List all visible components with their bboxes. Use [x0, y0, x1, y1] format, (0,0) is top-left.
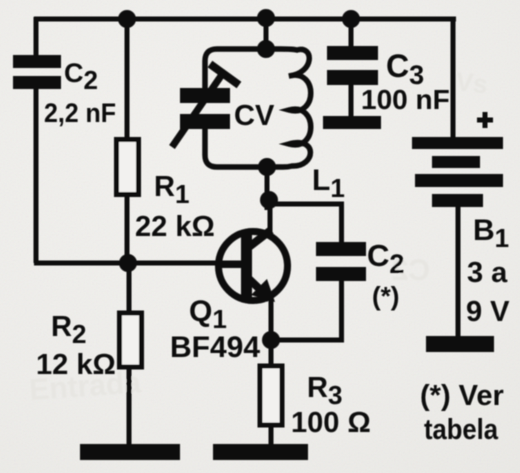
svg-text:(*) Ver: (*) Ver — [420, 380, 504, 412]
svg-text:100 Ω: 100 Ω — [291, 407, 371, 439]
svg-text:3 a: 3 a — [467, 257, 508, 289]
transistor base bar — [241, 235, 252, 299]
ground bar under C3 — [323, 116, 381, 129]
wire base junction to R2 — [127, 263, 132, 311]
svg-text:9 V: 9 V — [466, 296, 510, 328]
wire emitter to junction — [269, 298, 274, 342]
resistor R2 — [120, 313, 142, 367]
battery B1 plates — [412, 137, 503, 207]
svg-text:2,2 nF: 2,2 nF — [44, 98, 116, 128]
variable capacitor CV plates — [180, 88, 230, 129]
transistor emitter stroke — [249, 279, 270, 299]
wire C3 to ground bar — [349, 84, 354, 118]
transistor Q1 circle — [219, 232, 288, 301]
wire battery bottom to ground bar — [456, 205, 461, 340]
wire rail corner down to battery plus — [451, 17, 456, 139]
tank loop wire with coil L1 — [205, 49, 311, 167]
ground bar under battery — [426, 336, 494, 352]
node junction base — [119, 254, 137, 272]
wire collector node to C2 star branch — [268, 204, 342, 243]
svg-text:100 nF: 100 nF — [361, 84, 450, 115]
node junction rail-tank — [257, 9, 275, 27]
wire R3 to ground — [269, 427, 274, 448]
node junction rail-R1 — [118, 10, 136, 28]
wire collector node to transistor — [268, 199, 273, 237]
ground bar under R3 — [213, 444, 308, 460]
svg-text:Vs: Vs — [454, 66, 489, 99]
node junction emitter — [262, 331, 280, 349]
transistor base lead — [218, 262, 244, 268]
wire C2 star bottom to emitter junction — [270, 281, 342, 340]
capacitor C3 plates — [327, 46, 378, 85]
wire left branch from rail to C2 — [34, 17, 39, 56]
svg-text:12 kΩ: 12 kΩ — [36, 349, 116, 381]
transistor emitter arrowhead — [251, 279, 275, 302]
node junction collector tap — [260, 191, 278, 209]
wire base junction to transistor base — [127, 261, 244, 266]
svg-text:CV: CV — [234, 100, 275, 132]
battery B1 plus sign — [477, 112, 493, 128]
wire top rail — [34, 17, 456, 22]
wire lower-left horizontal to base junction — [34, 261, 130, 266]
svg-text:BF494: BF494 — [170, 331, 260, 364]
wire C2 bottom to lower-left corner — [34, 88, 39, 263]
node junction tank top — [257, 40, 275, 58]
CV arrow tee head — [210, 64, 239, 85]
svg-text:22 kΩ: 22 kΩ — [135, 211, 215, 243]
wire R1 to base junction — [125, 196, 130, 265]
resistor R1 — [117, 140, 139, 195]
capacitor C2 star plates — [316, 242, 366, 281]
capacitor C2 top-left plates — [13, 55, 61, 89]
node junction rail-C3 — [342, 10, 360, 28]
wire rail to tank top — [264, 17, 269, 50]
wire R2 to ground — [127, 369, 132, 448]
wire tank bottom to collector node — [265, 167, 270, 210]
svg-text:tabela: tabela — [424, 414, 499, 446]
wire emitter junction to R3 — [269, 340, 274, 365]
ground bar under R2 — [80, 444, 180, 460]
transistor collector stroke — [249, 230, 271, 247]
node junction tank bottom — [258, 158, 276, 176]
wire rail to R1 — [125, 17, 130, 138]
resistor R3 — [260, 366, 282, 425]
svg-text:(*): (*) — [372, 281, 399, 311]
CV arrow diagonal — [172, 73, 223, 147]
wire rail to C3 — [349, 17, 354, 47]
